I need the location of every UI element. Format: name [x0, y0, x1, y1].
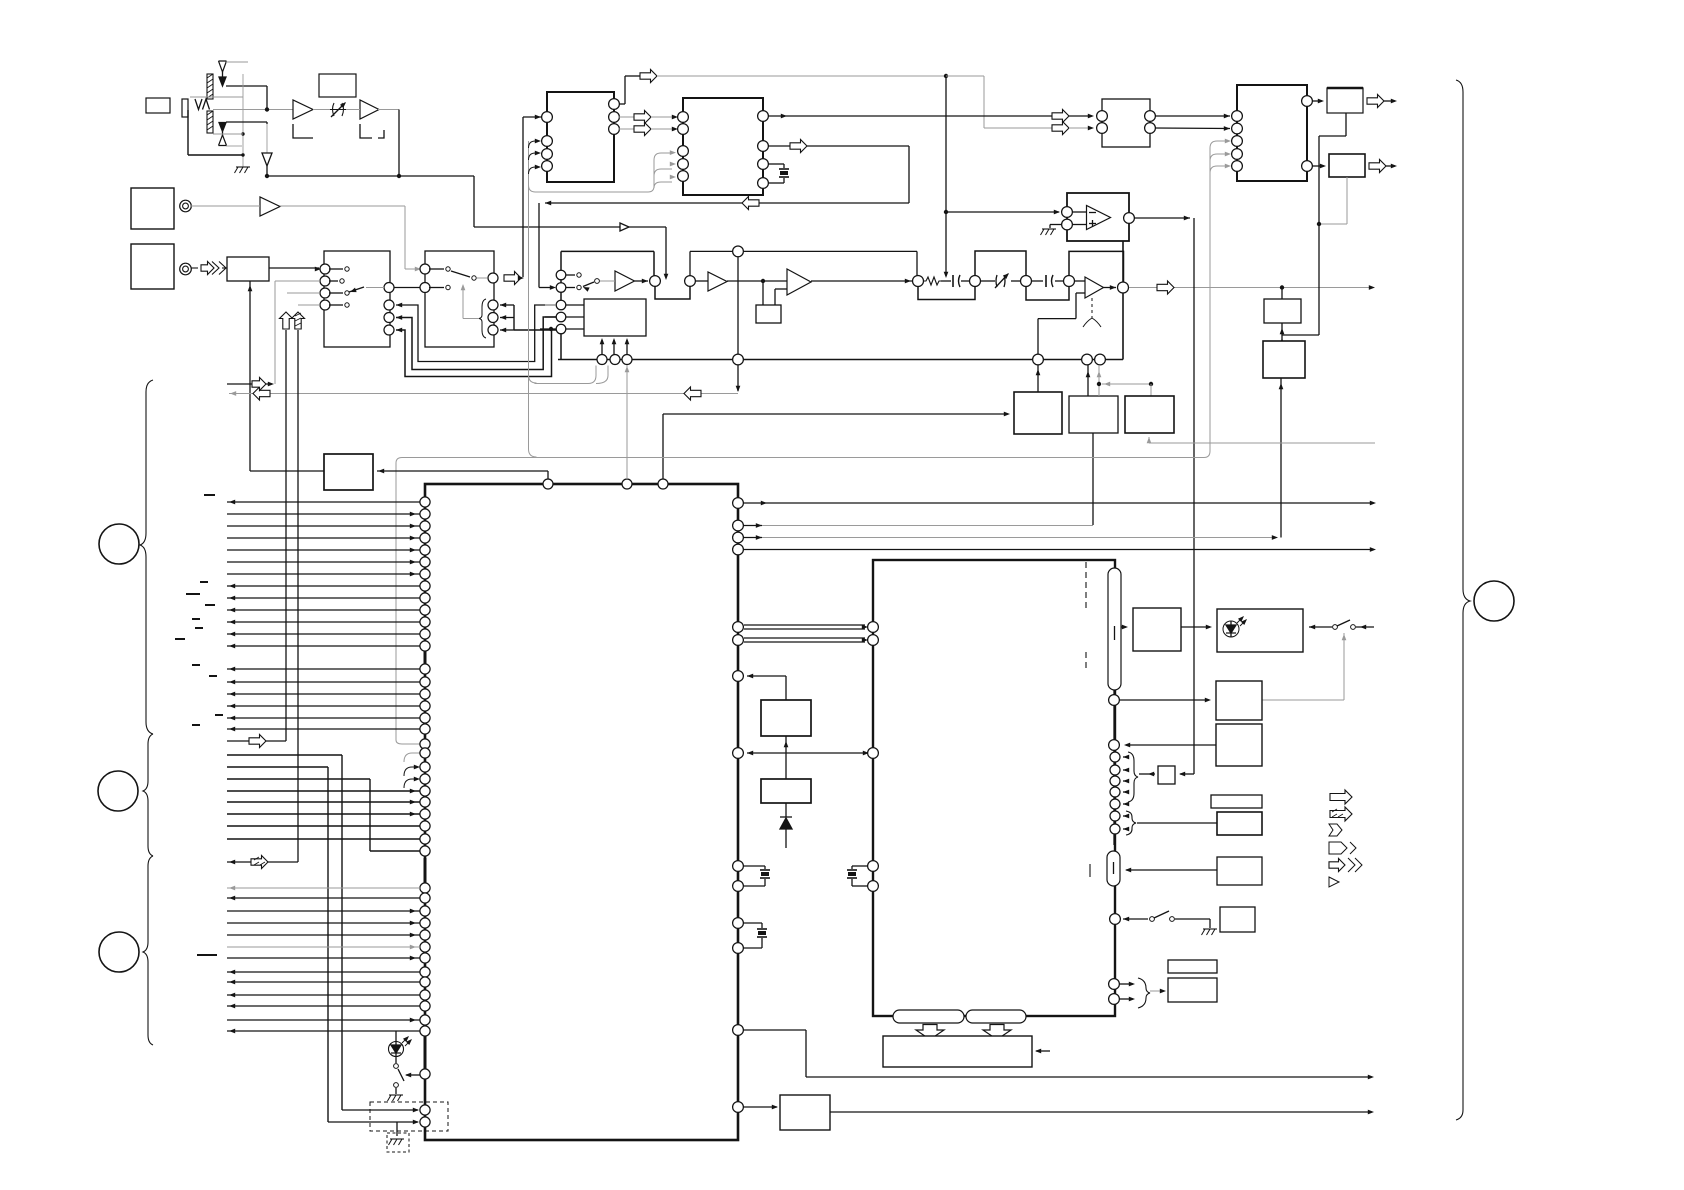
brace left 3 [143, 856, 153, 1045]
arrow: audio out block [1157, 281, 1375, 294]
wire: LED switch feed [405, 1073, 420, 1078]
pin row359 junction x1087 [1082, 354, 1093, 365]
pin SW3-3 [545, 300, 584, 310]
pin IC1-R y866 crystal [733, 861, 765, 872]
hook pin747 [404, 753, 421, 762]
wire: SW1 in y305 [298, 304, 320, 306]
switch SW-LED [394, 1064, 404, 1088]
block: box M1r [761, 779, 811, 803]
amplifier A3 [260, 197, 280, 216]
LED D5 [1223, 614, 1249, 637]
IC: top IC U2 [547, 92, 614, 182]
coil L1 spring symbol [195, 99, 210, 110]
bus row y898 [227, 896, 420, 901]
pin U5-R2 [1302, 161, 1313, 172]
hook pin767 [404, 765, 420, 776]
pin IC2-L y866 crystal [852, 861, 878, 872]
wire: jack1 to A3 [191, 205, 260, 207]
wire: y384 short run [227, 378, 274, 391]
block: AM box above [319, 74, 356, 97]
pin op-amp plus [1062, 219, 1073, 230]
wire: A2 out down [378, 110, 399, 177]
pin IC1-R y627 [733, 622, 868, 633]
pin row359-1 [597, 355, 607, 365]
amplifier A4 [615, 271, 635, 291]
wire: gray drop x275 [274, 281, 276, 384]
pin row359 junction x738 [733, 354, 744, 365]
pin U3-L1 [678, 112, 689, 123]
switch SW-R [1150, 911, 1210, 928]
varactor diode D1 (top) [219, 61, 227, 86]
bus row y814 [227, 812, 420, 817]
pin SW2-1 [420, 264, 450, 274]
brace right big [1456, 80, 1470, 1120]
wire: K1 out [830, 1110, 1374, 1115]
pin U4-R1 [1145, 111, 1156, 122]
wire: main antenna node [213, 109, 293, 111]
block: box B4 [324, 454, 373, 490]
wire: control bus x1194 [1193, 218, 1195, 774]
block: box N2 [1069, 396, 1118, 433]
wire: SW3 pin link verticals [560, 280, 562, 359]
pin SW3-1 [556, 270, 581, 280]
bus row y646 [227, 644, 420, 649]
node dot clk [944, 74, 948, 78]
wire: x1114 link [1113, 706, 1115, 739]
bus row y682 [227, 680, 420, 685]
pin IC1-R y676 [733, 671, 786, 700]
arrow: fat down b [983, 1025, 1011, 1040]
wire: x551 drop [0, 0, 1, 1]
legend arrow hatched [1330, 807, 1352, 821]
wire: hatch lower link [213, 133, 243, 135]
wire: A bottom loop [1282, 113, 1346, 335]
wire: down x474 and open arrow run [474, 176, 666, 277]
wire: A7 feedback loop [1038, 293, 1085, 354]
IC: buffer U4 [1102, 99, 1150, 147]
bus row y634 [227, 632, 420, 637]
pin row359-3 [622, 355, 632, 365]
pill connector PL2 [1107, 851, 1120, 886]
block: box D2r [1216, 724, 1262, 766]
node dot x1319 [1317, 222, 1321, 226]
wire: gray y196 [0, 0, 1, 1]
wire: row y359 [558, 359, 1123, 361]
node dot antenna [265, 107, 269, 111]
wire: U5R2 to B [1312, 164, 1326, 169]
bus row y767 stair [227, 767, 328, 1122]
wire: y700 to D1box [1120, 698, 1211, 703]
bracket under J3-J4 [918, 287, 975, 300]
wire: U2R3 to U3 [619, 128, 634, 130]
LED D4 [389, 1031, 414, 1063]
arrow: into main row [664, 274, 669, 280]
bus row y610 [227, 608, 420, 613]
pin U3-R1 [758, 111, 769, 122]
bus row y982 [227, 980, 420, 985]
pin U3-R4 [758, 178, 769, 189]
node dot A2 route [397, 174, 401, 178]
block: input source box 2 [131, 244, 174, 289]
brace SW2 pins [479, 299, 486, 338]
pin SW2-r3 [488, 325, 514, 335]
wire: clk to U3 step [946, 76, 1052, 128]
legend arrow pentagon [1329, 842, 1356, 854]
hatched mounting bar lower [207, 111, 213, 133]
block: LED box [1217, 609, 1303, 652]
diode D3 [780, 803, 792, 848]
feedback loop SW3 top [561, 251, 654, 276]
feedback top line y251 [690, 251, 917, 276]
block: box N1 [1014, 392, 1062, 434]
wire: D1 top stub [226, 61, 248, 63]
wire: op-amp out to bus [1134, 216, 1190, 221]
pin U4-L1 [1097, 111, 1108, 122]
block: out filter A [1327, 88, 1363, 113]
connector: phono jack 2 [180, 263, 192, 275]
block: box under A6 [756, 305, 781, 323]
pin IC2 right y999 [1109, 994, 1135, 1005]
pin SW2-r2 [488, 313, 514, 323]
hook pin779 [404, 777, 420, 788]
dashed partition IC2 [1086, 562, 1090, 877]
legend arrow triangle [1329, 877, 1339, 887]
pin row359-2 [610, 355, 620, 365]
bus row y741 with block arrow [227, 330, 286, 748]
bus row y1031 [227, 1029, 420, 1034]
pill connector PL1 [1108, 568, 1121, 690]
wire: brace to E [1139, 772, 1155, 777]
pin SW1-4 [320, 300, 349, 310]
pin U2-R1 [609, 99, 620, 110]
wire: N2 bottom drop [1092, 433, 1094, 525]
bus row y911 [227, 909, 420, 914]
arrow: clk block [640, 70, 657, 83]
switch lever SW3 [582, 279, 599, 292]
bus row y550 [227, 548, 420, 553]
bus row y935 [227, 933, 420, 938]
pin SW3-4 [545, 312, 584, 322]
tick marks signal levels [175, 495, 223, 955]
bus row y947 [227, 945, 420, 950]
pin IC2 right y984 [1109, 979, 1135, 990]
block: box K1 [780, 1095, 830, 1130]
wire: y1122 into pin [328, 1120, 419, 1125]
brace pair cluster [1126, 811, 1136, 835]
bus row y622 [227, 620, 420, 625]
crystal X3 [744, 929, 767, 948]
wire: A3 to switch2 [280, 206, 421, 271]
bus row y802 [227, 800, 420, 805]
pin SW1-2 [320, 276, 344, 286]
bus row y502 [227, 500, 420, 505]
block: switch box SW3 [584, 299, 646, 336]
wire: G feed [1125, 868, 1217, 873]
pin IC1-R y549 [733, 544, 1376, 555]
bus row y826 [227, 825, 420, 827]
wire: C1 to LED box [1181, 625, 1212, 630]
pins IC2 ctrl cluster [1110, 752, 1129, 809]
pin IC1-R y923 crystal [733, 918, 762, 929]
stub: A7 dashed hanger [1083, 298, 1101, 330]
wire: brace3 to I2 [1150, 989, 1166, 994]
switch SW-LED2 [1309, 620, 1374, 629]
wire: clk gray run [657, 75, 946, 77]
block: box L1r [761, 700, 811, 736]
block: box F1 [1211, 795, 1262, 808]
wire: P2 bottom drop [1279, 378, 1284, 538]
pin IC1-R y537 [733, 532, 1278, 543]
hatched mounting bar upper [207, 74, 213, 99]
arrow: out B [1369, 160, 1397, 173]
variable attenuator VC1 [330, 100, 348, 117]
wire: U4 to U5 a [1155, 114, 1230, 119]
node dot lower [265, 174, 269, 178]
wire: J6 to A7 [1075, 280, 1085, 282]
arrow: y393 block left a [253, 387, 270, 400]
wire: x1194 to E1 [1179, 772, 1194, 777]
pin op-amp minus [1062, 207, 1073, 218]
pin U3-L3 [678, 146, 689, 157]
wire: y414 feed [663, 412, 1010, 479]
ground: LED [388, 1088, 404, 1101]
pin SW2-r1 [488, 300, 514, 310]
pin SW3-5 [540, 324, 584, 334]
amplifier A2 [360, 100, 379, 119]
arrow: hatched up-arrow x298 [292, 312, 305, 329]
pin IC1-top-3 [658, 479, 668, 489]
arrow: open up-arrow x286 [280, 312, 293, 329]
connector circle CN3 [99, 932, 139, 972]
pin SW1-out [366, 283, 394, 293]
varactor diode D2 (bottom) [219, 123, 227, 146]
wire: J1 right feed [1035, 1049, 1050, 1054]
arrow: A4 out [635, 279, 649, 284]
amplifier A5 [708, 272, 727, 291]
bus row y958 [227, 956, 420, 961]
bracket under A2 [360, 124, 384, 138]
wire: gray column x243 [241, 74, 244, 167]
block: level box P1 [1264, 299, 1301, 323]
block: box J1 wide [883, 1036, 1032, 1067]
wire: U3R2 loop [545, 140, 909, 210]
resistor R1 series [924, 277, 941, 285]
wire: U2 clock out [619, 76, 640, 104]
IC: main IC IC1 [425, 484, 738, 1140]
bracket over J6-J7 [1069, 251, 1124, 282]
node dot op-in [944, 210, 948, 214]
bus row y779 stair [227, 779, 420, 851]
block: box G1 [1217, 857, 1262, 885]
crystal X2 [744, 870, 770, 886]
arrow: SW2 block out [504, 272, 524, 285]
wire: v523 feed [522, 117, 524, 277]
amplifier A7 [1085, 277, 1104, 298]
pin SW1-r1 route [384, 300, 556, 362]
legend arrow double chevron [1329, 858, 1362, 872]
pin row junction J2 [685, 276, 696, 287]
pin row359 junction x1100 [1095, 354, 1106, 365]
block: switch box SW1 [324, 251, 390, 347]
variable capacitor VC2 [981, 271, 1021, 288]
wire: row359 to y393 arrow [736, 365, 741, 392]
bus row y888 gray [227, 886, 420, 891]
wire: SW3 bottom feeds [600, 338, 630, 355]
pin on top line [733, 246, 744, 257]
pins IC2 pair cluster [1110, 811, 1129, 834]
pin IC2 right y745 [1109, 740, 1216, 751]
wire: gray bar link [190, 96, 243, 98]
wire: D2 bottom stub [226, 145, 242, 147]
pin row junction J6 [1064, 276, 1075, 287]
pin U5-L3 [1232, 136, 1243, 147]
wire: FE1 down feed [248, 281, 253, 471]
wire: SW2 tap bus [514, 305, 556, 330]
wire: N2 top feeds [1086, 365, 1102, 396]
wire: pill to C1 [1121, 625, 1128, 630]
crystal X4 [847, 870, 868, 886]
pin U2-R3 [609, 124, 620, 135]
block: op-amp box [1067, 193, 1129, 241]
connector: antenna jack contact [182, 99, 188, 117]
pin U2-L3 [542, 149, 553, 160]
arrow: y393 block left b [684, 387, 701, 400]
capacitor C1 series [941, 275, 972, 287]
legend arrow open [1330, 790, 1352, 804]
pin row359 junction x1038 [1033, 354, 1044, 365]
wire: gray hatch tap [0, 0, 1, 1]
block: box F2 [1217, 812, 1262, 835]
pin U3-R3 [758, 159, 769, 170]
wire: SW1-SW2 link [394, 287, 420, 289]
wire: D2 top to arrow [226, 122, 267, 124]
pin U2-L2 [542, 136, 553, 147]
bus row y1020 [227, 1018, 420, 1023]
connector circle CN4 [1474, 581, 1514, 621]
pin SW1-3 with lever [320, 287, 364, 298]
ground: SW-R [1202, 929, 1218, 935]
pins IC1 left column [420, 497, 430, 1127]
wire: jack to ground run [188, 110, 243, 155]
node dot audio split [1280, 285, 1284, 289]
bracket under J1-J2 [655, 287, 690, 300]
pin U4-L2 [1097, 123, 1108, 134]
wire: U4 to U5 b [1155, 126, 1230, 131]
pin U5-L5 [1232, 161, 1243, 172]
pill connector PLB [966, 1010, 1026, 1023]
bus row y598 [227, 596, 420, 601]
tick IC1 edge thick c [424, 1036, 427, 1069]
pin SW1-1 [320, 264, 349, 274]
IC: output IC U5 [1237, 85, 1307, 181]
pin U5-L2 [1232, 123, 1243, 134]
bracket under A1 [293, 124, 317, 138]
wire: gnd stub x397 [396, 1122, 398, 1136]
arrow: out A [1367, 95, 1397, 108]
IC: main IC IC2 [873, 560, 1115, 1016]
wire: v528 feed [529, 139, 542, 457]
terminal: open down-arrow [262, 153, 272, 176]
pin IC1-R y886 [733, 881, 744, 892]
pin IC2 right y700 [1109, 690, 1120, 705]
wire: A1 in [0, 0, 1, 1]
arrow: clk block2 [1052, 122, 1094, 135]
wire: top pin1 link [377, 469, 548, 479]
connector: phono jack 1 [180, 200, 192, 212]
brace ctrl cluster [1128, 752, 1138, 802]
op-amp U1 [1087, 206, 1111, 230]
wire: A1-VC1-A2 [313, 109, 360, 111]
bus row y514 [227, 512, 420, 517]
pin U2-L1 [523, 112, 552, 123]
wire: x1114 link2 [1113, 751, 1115, 845]
wire: B bottom gray [1319, 177, 1347, 224]
arrow: fat down a [916, 1025, 944, 1040]
pin IC2-L y753 [868, 748, 879, 759]
tick IC1 edge thick b [424, 858, 427, 883]
wire: brace to lever [461, 284, 479, 319]
wire: A5 out [727, 280, 787, 282]
wire: y457 gray run [396, 148, 1210, 463]
brace left 1 [140, 380, 153, 734]
pin SW2-out [488, 273, 498, 283]
pill connector PLA [893, 1010, 964, 1023]
wire: x540 drop from y203 [539, 203, 552, 288]
wire: SW1 in y281 [275, 280, 320, 282]
pin U3-L4 [678, 159, 689, 170]
wire: gray drop [266, 124, 268, 153]
pin IC2-L y627 [868, 622, 879, 633]
pin IC1-R y503 [733, 498, 1376, 509]
pin IC1-R y1030 [733, 1025, 1374, 1080]
pin U3-L2 [678, 124, 689, 135]
wire: box feeds [763, 281, 787, 305]
node dot ground run [0, 0, 1, 1]
amplifier A1 [293, 100, 313, 119]
bracket over J4-J5 [975, 251, 1026, 275]
arrow: A7 out [1104, 285, 1117, 290]
block: box D1r [1216, 681, 1262, 720]
pin IC2 right y919 [1110, 914, 1148, 925]
block: box C1 [1133, 608, 1181, 651]
pin IC2-L y640 [868, 635, 879, 646]
wire: B4 left feed [250, 470, 324, 472]
block: out filter B [1329, 154, 1365, 177]
pin IC1-R y1107 [733, 1102, 778, 1113]
wire: P1-P2 link [1280, 323, 1285, 344]
amplifier A6 [787, 269, 811, 295]
wire: audio out row [1129, 287, 1372, 289]
arrow: U2R2 block [634, 111, 678, 124]
block: box I2 [1168, 978, 1217, 1002]
wire: v656 feed [529, 150, 677, 192]
wire: FE1 out [269, 267, 321, 272]
dashed box lower [370, 1102, 448, 1131]
crystal X1 [768, 164, 789, 183]
bus row y839 [227, 838, 420, 840]
pin IC1-R y948 [733, 943, 744, 954]
bus row y729 [227, 727, 420, 732]
wire: N3 bottom feed [1147, 437, 1375, 443]
pin SW1-r3 route [384, 325, 552, 377]
wire: y383 gray run [535, 366, 609, 384]
IC: top IC U3 [683, 98, 763, 195]
ground: dashed box [389, 1139, 405, 1145]
block: box I1 [1168, 960, 1217, 973]
bus row y755 stair [227, 755, 342, 1110]
block: level box P2 [1263, 341, 1305, 378]
block: box E1 [1158, 766, 1175, 784]
